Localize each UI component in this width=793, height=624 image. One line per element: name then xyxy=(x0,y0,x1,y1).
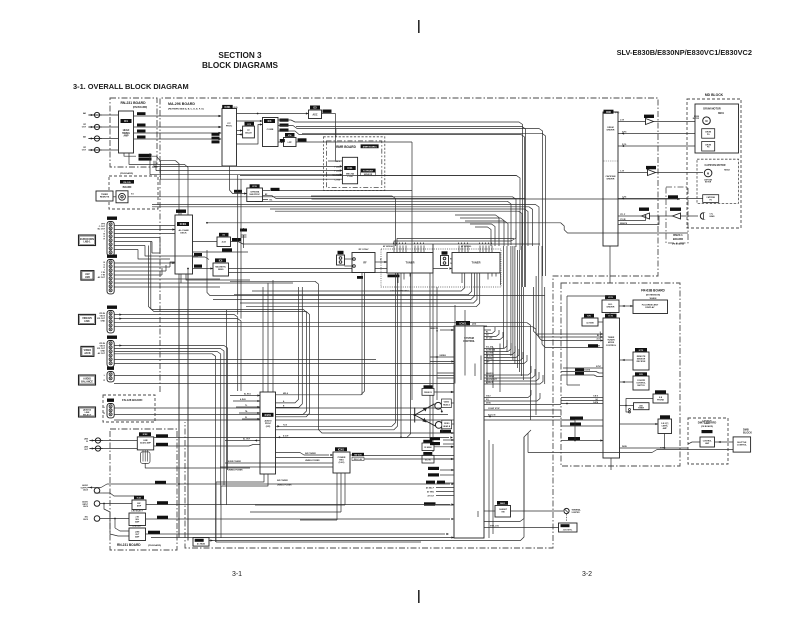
RMR long wire through xyxy=(358,175,517,177)
svg-text:MA-296 BOARD: MA-296 BOARD xyxy=(168,102,195,106)
svg-text:CLOCK OUT: CLOCK OUT xyxy=(486,379,498,381)
svg-text:S801: S801 xyxy=(500,503,506,505)
bus verticals right-center xyxy=(504,246,545,384)
syscon bottom right block cassette xyxy=(495,501,511,517)
wire DMB long bottom xyxy=(528,430,733,453)
svg-text:CONTROL: CONTROL xyxy=(606,345,617,347)
drum motor box xyxy=(695,104,739,153)
svg-text:RF: RF xyxy=(363,262,367,265)
svg-text:1(1/2): 1(1/2) xyxy=(615,112,620,114)
svg-text:TIMER: TIMER xyxy=(101,194,108,196)
LPF label left xyxy=(280,139,285,142)
svg-text:IC3: IC3 xyxy=(268,120,272,123)
syscon IC601 xyxy=(454,321,484,538)
audio IC201 xyxy=(260,392,276,474)
wire clock to IC xyxy=(598,321,603,323)
svg-text:SW 5.8V: SW 5.8V xyxy=(354,455,362,457)
wire servo to drum row3 xyxy=(618,144,702,147)
svg-text:AT TRIG: AT TRIG xyxy=(427,491,435,494)
svg-text:W: W xyxy=(245,417,247,419)
svg-text:SW: SW xyxy=(501,512,504,514)
wire CN3 corner upper xyxy=(149,250,546,417)
svg-text:2-IN SELECT: 2-IN SELECT xyxy=(131,511,143,513)
wire servo to capstan amp xyxy=(618,166,703,176)
board RN-231 (audio, bottom left) xyxy=(110,429,177,550)
remote sensor block xyxy=(633,348,649,370)
svg-text:3-2: 3-2 xyxy=(582,571,592,578)
tuner dotted box xyxy=(381,245,501,287)
svg-text:(PATTERN SIDE A, B, C, D, E, F: (PATTERN SIDE A, B, C, D, E, F, G) xyxy=(168,108,204,111)
power left in xyxy=(220,461,333,472)
svg-text:POSI: POSI xyxy=(347,176,353,178)
dew sensor block xyxy=(658,415,672,433)
timer micon IC xyxy=(603,314,620,458)
svg-text:SL/MB DIA: SL/MB DIA xyxy=(486,349,496,352)
long vertical x179 xyxy=(178,287,180,538)
board MD BLOCK xyxy=(687,93,741,228)
timer left mid rows xyxy=(561,396,603,405)
svg-text:BLOCK DIAGRAMS: BLOCK DIAGRAMS xyxy=(202,61,278,70)
svg-text:AMP: AMP xyxy=(663,427,668,430)
DMB block box xyxy=(733,437,751,452)
svg-text:UNREG POWER: UNREG POWER xyxy=(305,460,320,462)
wire CN2 Y loop xyxy=(162,262,175,275)
svg-text:AUDIO AMP: AUDIO AMP xyxy=(140,441,151,444)
board RN231 (capstan side) xyxy=(666,187,688,246)
wires comb outputs right xyxy=(278,120,543,287)
svg-text:JACK: JACK xyxy=(83,505,89,508)
svg-text:UNREG POWER: UNREG POWER xyxy=(277,485,292,487)
svg-text:RECEIVE: RECEIVE xyxy=(637,361,646,363)
RMR left pin labels xyxy=(332,161,340,182)
connector strip CN4 xyxy=(107,336,117,367)
svg-text:(EXTENSION): (EXTENSION) xyxy=(646,295,660,297)
svg-text:MECHA: MECHA xyxy=(346,173,354,176)
svg-text:(2/2): (2/2) xyxy=(472,324,476,326)
svg-text:IC301: IC301 xyxy=(224,107,231,109)
svg-text:LNB-1: LNB-1 xyxy=(83,241,91,244)
wires IC301 to comb xyxy=(237,120,263,144)
svg-text:SUB PROC: SUB PROC xyxy=(249,194,260,196)
syscon bottom-left pins xyxy=(424,437,454,506)
block AGC top xyxy=(309,106,322,119)
power out labels xyxy=(352,453,364,461)
wire head amp lower pins xyxy=(124,153,188,541)
bus verticals center-left xyxy=(263,280,273,392)
svg-text:(2/2): (2/2) xyxy=(234,107,238,109)
svg-text:JACK: JACK xyxy=(83,489,89,492)
wire servo bottom rows xyxy=(618,216,659,225)
wire timer to dew xyxy=(620,423,659,425)
svg-text:COMB: COMB xyxy=(267,129,274,131)
svg-text:GND: GND xyxy=(101,321,106,323)
line amp bottom pins xyxy=(141,450,251,468)
wires CN3 video long xyxy=(114,313,536,420)
svg-text:HEAD: HEAD xyxy=(710,215,716,218)
wire head amp RF to video IC xyxy=(134,115,222,117)
svg-text:C, W: C, W xyxy=(620,171,624,173)
svg-text:RN-231 BOARD: RN-231 BOARD xyxy=(117,543,141,547)
svg-text:DATA: DATA xyxy=(622,445,627,448)
timer left input rows A xyxy=(533,331,603,342)
wire magnetic out right xyxy=(229,244,453,273)
wire x500 down xyxy=(475,344,500,393)
wire head amp out 4 xyxy=(134,138,222,140)
syscon inner right column vertical xyxy=(489,440,493,538)
block FE head xyxy=(422,440,454,451)
svg-text:RN-231 BOARD: RN-231 BOARD xyxy=(120,101,146,105)
svg-text:SWING: SWING xyxy=(122,133,130,135)
svg-text:RMR BOARD: RMR BOARD xyxy=(336,145,357,149)
video head A xyxy=(435,399,454,413)
syscon right pins group3 xyxy=(484,366,543,384)
svg-text:TIMER: TIMER xyxy=(638,408,645,410)
wire 2insel out xyxy=(146,516,455,520)
svg-text:DRUM MOTOR: DRUM MOTOR xyxy=(703,108,721,111)
wire syscon to cassette xyxy=(478,511,495,517)
svg-text:DISPLAY: DISPLAY xyxy=(645,306,655,309)
wires RF jacks to head amp xyxy=(101,115,119,150)
long vertical x188 xyxy=(187,268,189,541)
aerial connector jacks xyxy=(82,112,102,153)
svg-text:MD BLOCK: MD BLOCK xyxy=(705,93,724,97)
svg-text:(FN BOARD): (FN BOARD) xyxy=(148,544,161,547)
capstan motor symbol xyxy=(704,169,713,184)
wire shuttle to FR63 edge xyxy=(688,442,700,444)
wires comb to servo area xyxy=(206,222,688,233)
svg-text:BLOCK: BLOCK xyxy=(743,432,752,435)
svg-text:REMOTE: REMOTE xyxy=(100,197,110,199)
RMR right label boxes xyxy=(361,169,376,177)
svg-text:PHONE: PHONE xyxy=(657,399,664,401)
counter switch block xyxy=(633,372,649,390)
block xtal 1 xyxy=(217,233,231,247)
wire IC301 to AGC to right xyxy=(237,110,336,161)
block IF demod xyxy=(452,253,500,274)
svg-text:MOTOR: MOTOR xyxy=(705,182,712,184)
drum PG box xyxy=(702,129,715,139)
page title right xyxy=(617,48,752,57)
BD driver block xyxy=(602,295,619,312)
board DM73 xyxy=(688,418,728,464)
wire audio out return xyxy=(103,493,135,496)
xtal top cap xyxy=(240,228,247,248)
svg-text:LINK: LINK xyxy=(84,320,90,323)
svg-text:DRIVER: DRIVER xyxy=(607,130,615,132)
section heading xyxy=(73,82,189,91)
power bottom pins xyxy=(250,473,345,520)
wire into RMR top xyxy=(335,129,337,138)
wire LPF out right xyxy=(296,138,412,225)
svg-text:CTL(R): CTL(R) xyxy=(620,219,626,221)
svg-text:AT CNT: AT CNT xyxy=(486,337,493,340)
line amp block xyxy=(129,525,146,541)
svg-text:LINE AMP: LINE AMP xyxy=(133,525,143,528)
svg-text:A IN B: A IN B xyxy=(240,398,246,401)
antenna in small box xyxy=(337,251,345,265)
svg-text:IC401: IC401 xyxy=(180,223,187,226)
svg-text:IC1: IC1 xyxy=(124,120,129,123)
svg-text:DRIVER: DRIVER xyxy=(607,179,615,181)
svg-text:AT MODUL: AT MODUL xyxy=(383,245,394,248)
wire jack links xyxy=(104,504,129,537)
tuner label below xyxy=(390,290,410,293)
capstan motor box xyxy=(697,159,739,203)
wire BD to display xyxy=(619,305,633,307)
wires right column to syscon xyxy=(0,0,1,1)
svg-text:BOARD: BOARD xyxy=(123,186,132,189)
wire timer to counter xyxy=(620,381,634,383)
block AC head sw xyxy=(422,452,454,463)
svg-text:A OUT: A OUT xyxy=(283,434,289,437)
servo block top stub xyxy=(0,0,1,1)
bus horizontals into syscon right top xyxy=(484,326,491,330)
svg-text:SELECT: SELECT xyxy=(83,415,92,417)
wire mic amp out xyxy=(146,501,454,505)
svg-text:DATA: DATA xyxy=(486,402,491,405)
power block xyxy=(333,447,350,473)
svg-text:RF CONV: RF CONV xyxy=(359,249,369,251)
long wires video row xyxy=(0,0,1,1)
svg-text:PROC: PROC xyxy=(265,423,272,425)
svg-text:AL-CHAN: AL-CHAN xyxy=(179,229,189,232)
svg-text:U, W: U, W xyxy=(620,120,624,122)
wire CN1 loop lines xyxy=(138,238,198,260)
audio IC left pins xyxy=(230,393,260,421)
svg-text:DECK: DECK xyxy=(180,233,187,235)
svg-text:FN-129: FN-129 xyxy=(123,182,131,184)
svg-text:IC201: IC201 xyxy=(265,414,272,417)
wires CN5 audio xyxy=(114,376,465,384)
servo driver IC block xyxy=(603,110,620,246)
svg-text:AV OUT: AV OUT xyxy=(98,352,106,355)
svg-text:(FN BOARD): (FN BOARD) xyxy=(133,106,147,109)
wire x318 drop xyxy=(230,281,454,434)
svg-text:IC31: IC31 xyxy=(252,186,257,188)
svg-text:VIDEO: VIDEO xyxy=(444,402,450,404)
board FN-129 xyxy=(109,172,158,209)
svg-text:HEAD B: HEAD B xyxy=(443,425,451,428)
svg-text:UNREG: UNREG xyxy=(440,355,447,357)
wire audio in long xyxy=(101,481,454,488)
bus verticals center xyxy=(412,225,437,452)
mic amp block xyxy=(132,496,146,510)
label euroconnector 1 xyxy=(79,235,96,246)
svg-text:AC HEAD: AC HEAD xyxy=(197,543,206,546)
bus bundle D (verticals from video IC) xyxy=(238,175,241,319)
svg-text:EVER POWER: EVER POWER xyxy=(228,461,241,463)
bus bundle A (video to timer, nested corners) xyxy=(128,127,546,287)
svg-text:A LIV: A LIV xyxy=(596,338,601,341)
svg-text:CAPSTAN: CAPSTAN xyxy=(606,175,616,178)
long vertical x226 xyxy=(226,310,228,505)
svg-text:(FN BOARD): (FN BOARD) xyxy=(672,243,684,246)
svg-text:DELAY: DELAY xyxy=(245,132,252,135)
shuttle control block xyxy=(700,420,715,448)
wire IC401 to magnetic xyxy=(193,253,214,270)
svg-text:(FN BOARD): (FN BOARD) xyxy=(120,172,133,175)
label audio balance xyxy=(79,375,96,385)
svg-text:F LED: F LED xyxy=(334,167,340,169)
wire timer DATA out xyxy=(620,433,689,449)
svg-text:DATA: DATA xyxy=(593,401,598,404)
svg-text:AMP: AMP xyxy=(135,535,140,538)
line audio amp block xyxy=(137,432,153,450)
svg-text:REG 5.8V: REG 5.8V xyxy=(354,459,363,461)
svg-text:AL OUT: AL OUT xyxy=(243,438,251,441)
svg-text:AE: AE xyxy=(83,112,87,115)
svg-text:(RMR BOARD): (RMR BOARD) xyxy=(363,145,377,148)
svg-text:HEAD A: HEAD A xyxy=(443,404,451,407)
svg-text:IC71: IC71 xyxy=(608,316,613,318)
svg-text:VIDEO: VIDEO xyxy=(444,423,450,425)
CTL head symbol xyxy=(700,213,715,219)
wire x575 down xyxy=(574,420,576,441)
svg-text:AE: AE xyxy=(83,136,87,139)
power out wires xyxy=(350,455,470,459)
top tick mark xyxy=(418,20,420,33)
svg-text:3-1: 3-1 xyxy=(232,571,242,578)
bus bundle right of tuner xyxy=(394,230,516,246)
svg-text:IC90: IC90 xyxy=(606,112,612,114)
svg-text:TL B: TL B xyxy=(283,424,288,426)
svg-text:CAPSTAN MOTOR: CAPSTAN MOTOR xyxy=(705,164,726,167)
bottom tick mark xyxy=(418,590,420,603)
wire ctl head to servo xyxy=(618,208,698,220)
head amp output labels xyxy=(137,112,146,138)
video head B xyxy=(435,420,454,432)
svg-text:AMP: AMP xyxy=(137,504,142,507)
board FN-128 xyxy=(103,395,155,422)
timer left input row B xyxy=(542,344,603,348)
strip CN1 pin labels xyxy=(98,224,106,241)
tuner bottom pins xyxy=(398,273,501,285)
audio IC bottom pins xyxy=(216,474,292,487)
svg-text:UNREG POWER: UNREG POWER xyxy=(228,470,243,472)
svg-text:AGC: AGC xyxy=(312,114,317,117)
svg-text:FN-128 BOARD: FN-128 BOARD xyxy=(122,398,142,402)
wire AC head out xyxy=(209,437,524,542)
wire cassette to terminal xyxy=(511,508,582,513)
wire IC401 bottom out xyxy=(181,248,250,283)
wire timer to remote xyxy=(620,359,634,361)
video IC left pin arrows xyxy=(219,115,222,140)
svg-text:AMP: AMP xyxy=(123,135,129,138)
svg-text:CTL P: CTL P xyxy=(620,214,626,216)
svg-text:TO FRONT: TO FRONT xyxy=(363,170,374,172)
wire IC301 to TP delay xyxy=(237,129,243,135)
wire servo to drum row2 xyxy=(618,132,702,135)
label video jack 1 xyxy=(79,314,96,324)
svg-text:M: M xyxy=(707,171,709,175)
page number 3-1 xyxy=(232,571,242,578)
strip CN3 pin labels xyxy=(97,313,106,323)
clock block xyxy=(582,314,598,326)
AC head amp block xyxy=(193,538,209,547)
svg-text:SYNC: SYNC xyxy=(596,366,602,368)
audio IC left out lower xyxy=(225,438,260,442)
svg-text:JACK: JACK xyxy=(84,352,91,355)
svg-text:(FN BOARD): (FN BOARD) xyxy=(701,425,713,428)
syscon right pins group4 long xyxy=(484,390,561,417)
wire rfconv to tuner xyxy=(375,259,387,263)
wire x530 down video xyxy=(0,0,1,1)
svg-text:IC11: IC11 xyxy=(348,167,354,170)
svg-text:FE HEAD: FE HEAD xyxy=(424,446,432,449)
svg-text:SW POWER: SW POWER xyxy=(305,453,316,455)
antenna mid small box xyxy=(441,251,455,265)
wires CN4 video long xyxy=(114,344,475,542)
drum motor symbol xyxy=(693,116,711,124)
DMB block label xyxy=(743,429,752,435)
head switching amp IC block xyxy=(119,111,134,153)
svg-text:BOARD: BOARD xyxy=(673,237,683,241)
fluorescent display box xyxy=(633,300,668,314)
strip CN2 pin labels xyxy=(98,262,106,279)
wires CN1 to IC401 xyxy=(114,226,175,250)
svg-text:SHTL JOG: SHTL JOG xyxy=(490,526,500,528)
block comb filter IC xyxy=(263,118,279,147)
svg-text:DRUM FG: DRUM FG xyxy=(424,392,433,394)
led block xyxy=(634,403,650,410)
wire head amp out 3 xyxy=(134,132,222,134)
wires timer to sb/led xyxy=(620,399,654,414)
page number 3-2 xyxy=(582,571,592,578)
svg-text:M: M xyxy=(705,119,707,123)
block TP delay xyxy=(243,122,255,138)
svg-text:AV OUT: AV OUT xyxy=(98,276,106,279)
svg-text:TUNER: TUNER xyxy=(406,261,415,265)
svg-text:SHLR: SHLR xyxy=(705,423,711,425)
sb phone block xyxy=(653,390,668,403)
syscon left in top xyxy=(430,328,454,332)
svg-text:SECTION 3: SECTION 3 xyxy=(218,51,262,60)
svg-text:S METER: S METER xyxy=(572,512,581,514)
drum FG box xyxy=(702,142,715,152)
board RMR inner xyxy=(327,141,382,188)
wire line amp outs xyxy=(154,434,453,446)
svg-text:LNB: LNB xyxy=(85,276,90,279)
page title left xyxy=(202,51,278,70)
wire x465 down xyxy=(455,305,465,384)
label video jack 2 xyxy=(81,346,94,356)
svg-text:32.768K: 32.768K xyxy=(586,323,594,325)
bus bundle C (inner nest above tuner) xyxy=(455,215,508,246)
block tuner TU101 xyxy=(387,253,433,274)
comb right small labels xyxy=(280,119,289,132)
wire syscon to shuttle long xyxy=(484,433,528,522)
block LPF xyxy=(284,133,297,147)
board RN-231 (head amp, top left) xyxy=(110,98,157,167)
svg-text:FR-63B BOARD: FR-63B BOARD xyxy=(641,289,665,293)
wires CN2 pins xyxy=(114,262,293,287)
connector strip CN6 (FN-128) xyxy=(104,399,115,418)
servo block left stub xyxy=(0,0,1,1)
svg-text:AUDIO: AUDIO xyxy=(264,420,271,423)
wire IC401 xtal xyxy=(193,238,541,244)
svg-text:FLUORESCENT: FLUORESCENT xyxy=(642,305,659,307)
wire BD driver up xyxy=(567,296,610,385)
svg-text:SEARCH: SEARCH xyxy=(620,222,628,225)
block chroma IC xyxy=(247,184,263,201)
svg-text:S.B S: S.B S xyxy=(593,396,598,398)
2in sel block xyxy=(129,511,146,526)
wires tuner1 bottom pins xyxy=(357,273,402,438)
wire head amp out 2 xyxy=(134,126,222,128)
chroma outputs xyxy=(263,188,526,202)
rotary transformer symbol xyxy=(414,404,436,426)
svg-text:CONTROL: CONTROL xyxy=(737,445,748,447)
